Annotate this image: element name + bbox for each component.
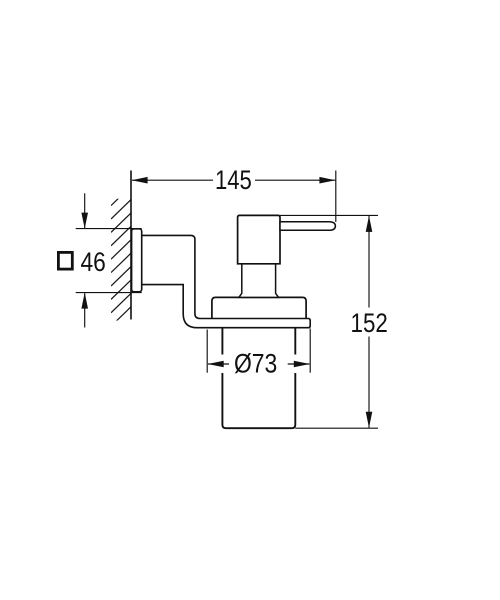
- svg-text:152: 152: [351, 309, 388, 338]
- svg-text:46: 46: [80, 247, 105, 277]
- svg-text:145: 145: [215, 166, 252, 196]
- svg-text:Ø73: Ø73: [234, 349, 277, 379]
